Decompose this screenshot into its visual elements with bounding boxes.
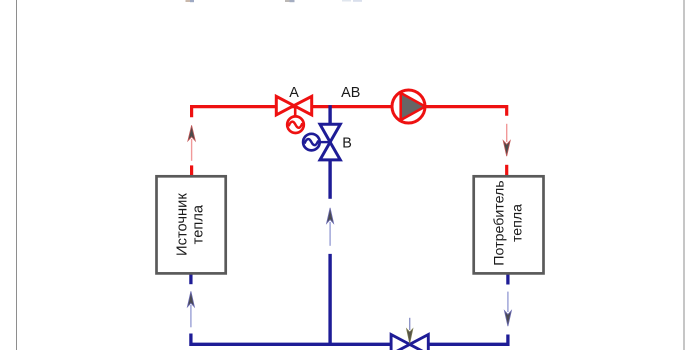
actuator stem of valve A [294,107,297,118]
wire: blue bypass pipe below valve B [328,158,331,199]
adjustment arrow (down) onto balancing valve [407,318,413,344]
actuator stem of valve B [320,141,330,143]
heat consumer box (Потребитель тепла) [474,176,544,273]
heat source box (Источник тепла) [157,176,226,273]
three-way valve port A (red bowtie) [276,96,311,115]
page border frame (left/right rules) [16,0,18,350]
svg-text:Потребитель: Потребитель [491,180,507,265]
flow arrow (down) on right blue riser [504,292,511,327]
svg-text:тепла: тепла [509,204,525,242]
flow arrow (up) on central bypass pipe [327,208,334,246]
flow arrow (up) on left red riser [188,125,195,160]
wire: red stub into heat source box [190,165,193,176]
svg-text:A: A [289,85,299,101]
balancing valve on return pipe (blue bowtie) [391,335,428,350]
three-way valve port B (blue bowtie, vertical) [320,124,340,160]
wire: red stub into heat consumer box [505,165,508,177]
flow arrow (up) on left blue riser [187,291,194,327]
actuator M2 (blue circle with wave) [303,134,320,151]
flow arrow (down) on right red riser [503,124,510,156]
wire: blue stub out of heat source box [189,274,192,284]
svg-text:тепла: тепла [190,204,206,244]
svg-text:AB: AB [341,85,360,101]
svg-text:Источник: Источник [174,193,190,256]
actuator M1 (red circle with wave) [287,116,304,133]
pump P1 (red circle, gray rotor triangle) [392,90,425,123]
wire: cold return pipe (bottom, blue) [191,334,508,345]
label: Источник тепла (rotated) [174,193,206,256]
wire: blue branch pipe from node AB down to valve B [328,105,331,127]
label: Потребитель тепла (rotated) [491,180,525,265]
wire: blue stub out of heat consumer box [506,274,509,285]
wire: hot supply pipe (top, red) [192,107,507,118]
svg-text:B: B [342,136,352,152]
